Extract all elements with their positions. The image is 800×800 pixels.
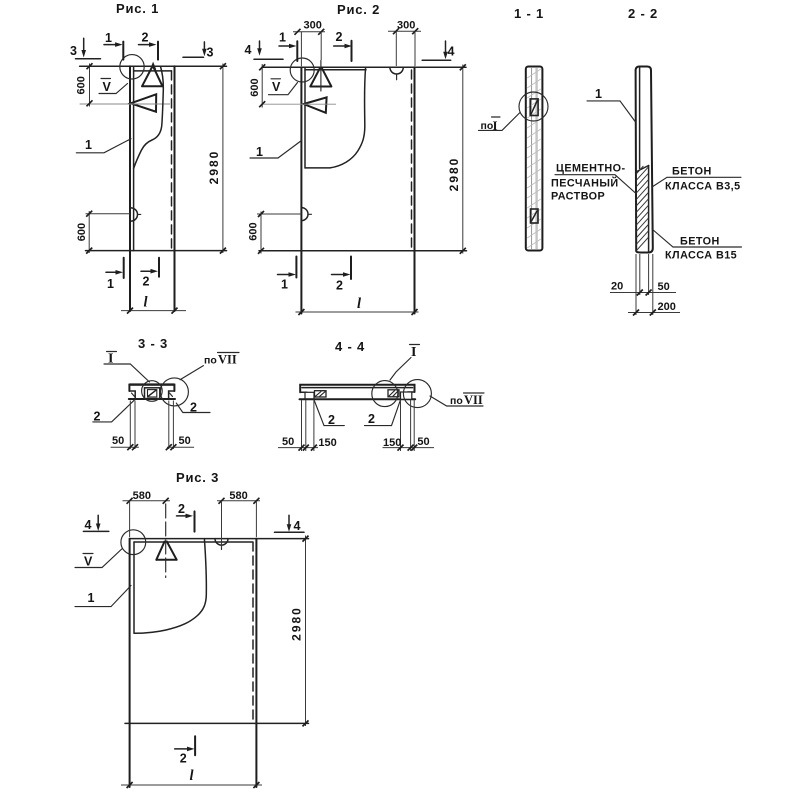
svg-text:2: 2 xyxy=(336,30,343,44)
svg-text:1: 1 xyxy=(595,87,602,101)
svg-text:2980: 2980 xyxy=(207,150,221,185)
fig3 panel bottom edge xyxy=(125,722,309,724)
svg-text:580: 580 xyxy=(229,490,247,502)
svg-text:КЛАССА В15: КЛАССА В15 xyxy=(665,250,737,262)
fig1 lifting funnel xyxy=(131,94,157,111)
fig3 panel left inner edge xyxy=(133,542,135,633)
section1-1 detail circle xyxy=(519,92,548,121)
section4-4 end notches xyxy=(300,392,306,399)
section3-3 dim 50 right xyxy=(167,446,194,448)
svg-text:1: 1 xyxy=(88,591,95,605)
fig2 dim l bottom xyxy=(296,311,419,313)
fig1 dim 2980 xyxy=(222,64,224,254)
svg-text:ПЕСЧАНЫЙ: ПЕСЧАНЫЙ xyxy=(551,177,619,190)
fig3 top loop arc xyxy=(215,539,228,546)
fig2 panel top edge xyxy=(262,66,466,68)
svg-text:1: 1 xyxy=(107,277,114,291)
fig1 detail circle V xyxy=(120,55,144,79)
svg-text:Рис. 3: Рис. 3 xyxy=(176,470,219,485)
section2-2 strip outline xyxy=(636,67,653,253)
svg-text:Рис. 2: Рис. 2 xyxy=(337,2,380,17)
fig2 panel left outer edge xyxy=(300,67,302,313)
section2-2 hatching xyxy=(636,166,643,174)
section4-4 right plate white xyxy=(401,392,412,399)
dim 200 line xyxy=(628,312,680,314)
svg-text:V: V xyxy=(272,80,281,94)
fig2 lifting loop triangle xyxy=(310,68,331,86)
fig3 dim l bottom xyxy=(121,784,262,786)
svg-text:150: 150 xyxy=(318,437,336,449)
svg-text:50: 50 xyxy=(179,435,191,447)
section3-3 large circle xyxy=(160,378,188,406)
fig3 triangle axis xyxy=(165,504,167,578)
fig1 panel right outer edge xyxy=(174,66,176,311)
fig2 lifting funnel xyxy=(304,97,327,112)
section4-4 dim line left xyxy=(278,447,318,449)
svg-text:150: 150 xyxy=(383,437,401,449)
fig1 bottom pocket arc xyxy=(131,208,138,221)
svg-text:200: 200 xyxy=(658,301,676,313)
section4-4 bar outline xyxy=(300,385,414,393)
svg-text:3: 3 xyxy=(207,46,214,60)
svg-text:50: 50 xyxy=(417,436,429,448)
fig2 panel bottom edge xyxy=(259,250,467,252)
fig3 dim 2980 xyxy=(305,536,307,727)
svg-text:3 - 3: 3 - 3 xyxy=(138,336,168,351)
fig2 panel inner top edge xyxy=(305,69,366,71)
section2-2 mortar boundary xyxy=(636,166,649,173)
fig2 dim 2980 xyxy=(462,65,464,254)
svg-text:ЦЕМЕНТНО-: ЦЕМЕНТНО- xyxy=(556,163,626,175)
svg-text:V: V xyxy=(103,80,112,94)
svg-text:2 - 2: 2 - 2 xyxy=(628,6,658,21)
svg-text:VII: VII xyxy=(218,353,237,367)
fig2 panel right dashed edge xyxy=(411,70,413,251)
svg-text:l: l xyxy=(190,768,194,784)
svg-text:300: 300 xyxy=(304,20,322,32)
section4-4 extension lines xyxy=(301,400,303,451)
fig2 bottom cut mark 1 xyxy=(295,257,297,278)
fig3 bottom cut mark 2 xyxy=(194,736,196,755)
section1-1 interior texture xyxy=(531,68,533,249)
section3-3 bar outline xyxy=(129,385,174,391)
svg-text:50: 50 xyxy=(112,435,124,447)
fig1 dim 600 bottom xyxy=(88,211,90,253)
fig3 panel right dashed edge xyxy=(252,542,254,723)
fig1 panel bottom edge xyxy=(86,250,227,252)
fig2 funnel axis xyxy=(263,103,336,105)
fig3 panel inner top edge xyxy=(134,541,253,543)
section2-2 inner left line xyxy=(639,68,641,169)
fig2 bottom cut mark 2 xyxy=(350,257,352,280)
svg-text:1: 1 xyxy=(279,31,286,45)
svg-text:1: 1 xyxy=(256,145,263,159)
svg-text:600: 600 xyxy=(76,223,88,241)
svg-text:2980: 2980 xyxy=(290,606,304,641)
section2-2 inner right line xyxy=(648,166,650,252)
svg-text:2: 2 xyxy=(336,279,343,293)
svg-text:4: 4 xyxy=(245,43,252,57)
fig1 lifting loop triangle xyxy=(142,67,163,86)
section4-4 circle left xyxy=(372,381,398,407)
section4-4 circle right xyxy=(403,380,431,408)
fig3 panel right outer edge xyxy=(255,539,257,787)
fig2 panel right outer edge xyxy=(414,67,416,313)
section4-4 left plate white xyxy=(305,392,314,399)
section4-4 dim line right xyxy=(383,447,435,449)
fig3 detail circle xyxy=(121,530,146,555)
section2-2 dims bottom xyxy=(635,254,637,315)
svg-text:1: 1 xyxy=(281,278,288,292)
fig1 bottom cut mark 2 xyxy=(158,258,160,277)
svg-text:300: 300 xyxy=(397,20,415,32)
svg-text:2: 2 xyxy=(328,413,335,427)
dim 20/50 line xyxy=(610,292,676,294)
svg-text:600: 600 xyxy=(247,222,259,240)
svg-text:2: 2 xyxy=(180,752,187,766)
svg-text:1: 1 xyxy=(85,138,92,152)
svg-text:КЛАССА В3,5: КЛАССА В3,5 xyxy=(665,181,741,193)
fig1 J-curve cut boundary xyxy=(134,67,164,169)
svg-text:20: 20 xyxy=(611,281,623,293)
section1-1 strip outline xyxy=(526,67,543,251)
fig1 dim 600 top xyxy=(89,64,91,107)
section3-3 end notches xyxy=(129,391,135,399)
svg-text:l: l xyxy=(357,296,361,312)
fig2 cut boundary curve xyxy=(306,67,366,168)
svg-text:I: I xyxy=(411,345,416,360)
section3-3 embedded part xyxy=(145,388,160,399)
svg-text:2: 2 xyxy=(143,275,150,289)
svg-text:V: V xyxy=(84,555,93,569)
section3-3 small circle xyxy=(142,381,163,402)
fig3 cut boundary curve xyxy=(134,539,206,634)
svg-text:БЕТОН: БЕТОН xyxy=(672,166,712,178)
svg-text:1 - 1: 1 - 1 xyxy=(514,6,544,21)
fig2 dim 600 bottom xyxy=(260,212,262,254)
section3-3 dim 50 left xyxy=(111,446,139,448)
svg-text:4: 4 xyxy=(294,519,301,533)
svg-text:50: 50 xyxy=(658,281,670,293)
svg-text:БЕТОН: БЕТОН xyxy=(680,236,720,248)
svg-text:2980: 2980 xyxy=(447,157,461,192)
fig1 bottom cut mark 1 xyxy=(123,258,125,278)
fig3 panel left outer edge xyxy=(129,539,131,787)
svg-text:VII: VII xyxy=(464,393,483,407)
svg-text:2: 2 xyxy=(178,502,185,516)
fig1 panel inner top edge xyxy=(134,70,172,72)
section1-1 embedded plate lower xyxy=(531,209,539,223)
svg-text:4: 4 xyxy=(85,518,92,532)
section4-4 left hatched plate xyxy=(315,391,327,397)
svg-text:600: 600 xyxy=(76,76,88,94)
fig1 panel left inner edge xyxy=(133,66,135,250)
svg-text:2: 2 xyxy=(142,31,149,45)
svg-text:580: 580 xyxy=(133,490,151,502)
fig2 panel left inner edge xyxy=(304,67,306,168)
svg-text:600: 600 xyxy=(249,78,261,96)
svg-text:2: 2 xyxy=(368,412,375,426)
svg-text:РАСТВОР: РАСТВОР xyxy=(551,191,605,203)
svg-text:по: по xyxy=(450,395,463,407)
fig3 panel top edge xyxy=(130,538,309,540)
svg-text:4: 4 xyxy=(448,45,455,59)
svg-text:4 - 4: 4 - 4 xyxy=(335,339,365,354)
fig1 panel top edge xyxy=(80,65,227,67)
fig1 panel right dashed edge xyxy=(171,71,173,251)
svg-text:по: по xyxy=(204,355,217,367)
fig2 top loop arc xyxy=(390,67,403,74)
svg-text:3: 3 xyxy=(70,44,77,58)
section1-1 embedded plate upper xyxy=(530,99,538,116)
svg-text:1: 1 xyxy=(105,31,112,45)
fig2 detail circle V xyxy=(290,58,314,82)
svg-text:Рис. 1: Рис. 1 xyxy=(116,1,159,16)
fig1 funnel axis line xyxy=(80,103,170,105)
fig1 panel left outer edge xyxy=(129,66,131,311)
fig2 bottom pocket arc xyxy=(302,208,309,221)
fig1 dim l bottom xyxy=(121,310,186,312)
section3-3 extension lines xyxy=(129,401,131,450)
fig2 dim 600 top xyxy=(261,64,263,108)
section4-4 right hatched plate xyxy=(388,390,399,397)
svg-text:50: 50 xyxy=(282,436,294,448)
svg-text:l: l xyxy=(144,295,148,311)
fig3 lifting triangle xyxy=(156,542,176,560)
